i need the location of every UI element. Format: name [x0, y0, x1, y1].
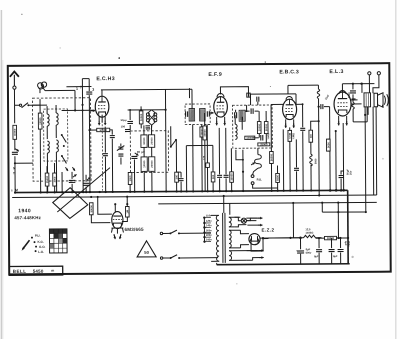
EF9 grid wire	[210, 112, 213, 114]
coil table	[49, 229, 67, 253]
IF1 wires	[192, 125, 194, 192]
legend switch	[23, 240, 30, 249]
resistor 3000	[53, 173, 57, 186]
svg-text:10000: 10000	[142, 160, 146, 168]
svg-text:145v: 145v	[206, 223, 212, 227]
trimmer wires	[61, 172, 63, 192]
svg-text:10000: 10000	[257, 123, 261, 131]
svg-text:1400Ω: 1400Ω	[305, 231, 313, 235]
svg-text:457-448KHz: 457-448KHz	[14, 215, 41, 220]
ECH3 pins	[98, 117, 100, 123]
wire s1	[204, 232, 211, 234]
svg-text:125v: 125v	[206, 219, 212, 223]
svg-text:200: 200	[175, 174, 179, 179]
bus 2	[12, 195, 376, 198]
svg-text:5000: 5000	[314, 158, 317, 164]
wire right v3	[375, 107, 378, 195]
switch ant	[15, 104, 20, 106]
coil box dashed	[33, 98, 92, 181]
ECH3 grid left wire	[62, 109, 95, 111]
wire right v1	[364, 107, 367, 212]
osc bottom wires	[133, 159, 135, 191]
tube EL3	[334, 92, 351, 116]
wire 293 up	[292, 203, 294, 238]
ant coil 2	[47, 141, 49, 153]
svg-text:6M3/665: 6M3/665	[124, 227, 144, 232]
6M3 wires	[114, 204, 116, 212]
bus 3	[158, 202, 376, 204]
padder 3	[141, 157, 147, 172]
svg-text:BELL: BELL	[13, 269, 27, 274]
speck	[118, 57, 120, 59]
speaker	[374, 93, 378, 107]
IF2 dashed box	[233, 105, 273, 148]
svg-text:1940: 1940	[18, 208, 31, 214]
svg-text:220v: 220v	[206, 233, 212, 237]
svg-text:50000: 50000	[269, 153, 273, 161]
svg-text:300: 300	[211, 174, 215, 179]
svg-text:500v: 500v	[306, 251, 312, 255]
pt primary	[216, 215, 219, 261]
svg-text:3000: 3000	[53, 176, 57, 182]
wire 88 to 190	[188, 88, 190, 98]
svg-text:20000: 20000	[38, 117, 42, 125]
heater arrows 1	[246, 220, 256, 222]
cap small	[145, 125, 149, 127]
coilbox bottom wires	[47, 177, 49, 192]
scan edge left	[0, 10, 2, 339]
heater arrows 2	[259, 250, 263, 252]
osc dashed box	[130, 131, 168, 173]
svg-text:50000: 50000	[264, 123, 268, 131]
wire top right link	[321, 203, 323, 212]
IF2 coil A	[239, 110, 245, 121]
pt sec HT	[229, 230, 231, 248]
switch S2	[160, 257, 162, 259]
padder 1	[141, 135, 147, 148]
svg-text:20000: 20000	[150, 160, 154, 168]
resistor osc out	[128, 172, 132, 184]
cap 50uF el3	[342, 123, 344, 190]
wire top 86 mid	[288, 84, 318, 86]
dash vert ech	[101, 121, 103, 191]
svg-text:1000: 1000	[128, 175, 132, 181]
svg-text:5000: 5000	[326, 142, 330, 148]
svg-text:1M: 1M	[309, 134, 313, 138]
resistor 20000	[38, 113, 42, 129]
wire 88 row	[101, 88, 192, 91]
EL3 top wire	[341, 84, 343, 93]
svg-text:50: 50	[144, 250, 149, 255]
mains terminal 2	[377, 72, 380, 75]
svg-text:245v: 245v	[206, 237, 212, 241]
svg-text:E.C.H3: E.C.H3	[96, 76, 115, 82]
resistor ebc 2	[276, 173, 280, 182]
cap ef9 2	[224, 174, 229, 176]
pancake coil	[38, 82, 47, 89]
svg-text:7: 7	[80, 85, 82, 89]
osc top wires	[128, 109, 166, 111]
switch arrows	[65, 167, 68, 171]
svg-text:1: 1	[76, 87, 78, 91]
resistor 5000 el3	[329, 107, 331, 139]
IF2 top cap	[250, 108, 252, 113]
svg-text:10000: 10000	[13, 128, 17, 136]
IF2 coil spring	[235, 124, 237, 139]
cap 3	[86, 91, 92, 93]
IF1 coil B	[200, 108, 206, 121]
cap ant gnd	[14, 139, 16, 150]
pt sec heater-rect	[229, 217, 231, 227]
ot wires	[361, 84, 363, 93]
osc coil 1	[56, 113, 58, 125]
resistor if1 b	[175, 172, 179, 182]
resistor 10000 ant	[13, 125, 17, 139]
osc right wire	[169, 104, 171, 109]
cap ech cath	[110, 130, 113, 135]
EBC3 pins	[285, 119, 287, 125]
tube ECH3	[95, 96, 109, 117]
svg-text:P.U.: P.U.	[35, 234, 41, 238]
band switch 2	[62, 156, 67, 164]
IF2 cap b	[260, 135, 262, 140]
wave switch wire	[170, 126, 172, 146]
cap if1 b	[180, 172, 182, 177]
padder 2	[148, 135, 154, 148]
osc left caps	[118, 146, 123, 148]
ECH3 cathode wire	[101, 115, 103, 123]
svg-text:25000: 25000	[260, 142, 268, 146]
svg-text:E.Z.2: E.Z.2	[261, 227, 274, 232]
wire 338 up	[337, 203, 339, 238]
svg-text:0.5M: 0.5M	[288, 133, 292, 139]
svg-text:E.L.3: E.L.3	[329, 69, 343, 75]
resistor 50000 ech	[97, 128, 110, 131]
svg-text:5000: 5000	[276, 175, 280, 181]
svg-text:10000: 10000	[139, 113, 143, 121]
mains terminal 1	[368, 72, 371, 75]
det wires	[236, 150, 243, 160]
coil top wires	[33, 104, 40, 106]
wire ant node	[14, 156, 16, 192]
IF1 coil A	[189, 109, 195, 122]
IF2 res 2	[264, 122, 268, 134]
pt core	[222, 213, 224, 263]
EBC3 top wire	[287, 85, 289, 93]
wire 336 v	[335, 131, 337, 190]
IF1 dashed box	[185, 104, 210, 125]
svg-text:G.O.: G.O.	[39, 245, 46, 249]
resistor 30000 filt	[324, 236, 336, 239]
svg-text:P.U.: P.U.	[257, 178, 263, 182]
cap 100pF ebc	[300, 127, 305, 129]
bus to frame	[216, 263, 218, 265]
cap elec 2	[318, 238, 320, 248]
IF1 cap left	[185, 111, 187, 116]
ech pin wires	[90, 129, 97, 131]
ez2 wires	[240, 230, 249, 234]
resistor 25000	[45, 173, 49, 186]
tuning gang box	[53, 188, 88, 219]
top wire y85 left	[66, 86, 91, 88]
padder 4	[149, 157, 155, 172]
volume pot	[257, 148, 259, 154]
svg-text:T: T	[13, 171, 15, 175]
svg-text:5450: 5450	[33, 269, 44, 274]
EL3 pins	[338, 116, 340, 123]
svg-text:100: 100	[121, 125, 126, 129]
pilot lamp	[241, 218, 246, 223]
svg-text:30000: 30000	[203, 129, 207, 137]
tap lines	[203, 218, 205, 242]
tube 6M3	[112, 212, 123, 229]
wire ebc to top	[269, 85, 271, 87]
svg-text:8μF: 8μF	[314, 255, 319, 258]
osc coil butterfly	[146, 113, 149, 116]
resistor 50000 avc	[90, 196, 92, 198]
switch S1	[160, 232, 162, 234]
resistor ef9 1	[203, 126, 207, 140]
gang shaft	[57, 168, 110, 212]
wire antenna down	[13, 89, 15, 123]
cap elec 1	[299, 238, 301, 249]
IF1 cap right	[206, 111, 208, 116]
chassis bus	[14, 190, 347, 192]
tube EBC3	[283, 99, 297, 119]
cap elec 4	[339, 238, 341, 248]
coil box inner dashed	[44, 109, 68, 161]
grid cap node	[45, 89, 75, 91]
svg-text:L.G.: L.G.	[38, 250, 44, 254]
6M3 base	[111, 227, 123, 229]
antenna	[13, 75, 15, 86]
EF9 pins	[216, 117, 218, 123]
resistor 1M ebc out	[311, 121, 319, 130]
svg-text:200v: 200v	[206, 228, 212, 232]
band switch 1	[62, 135, 67, 143]
resistor 30000 if1	[200, 127, 204, 137]
IF2 wires	[256, 97, 258, 102]
svg-text:10000: 10000	[230, 173, 234, 181]
coupling squiggle	[317, 89, 320, 98]
triangle 50	[137, 241, 156, 257]
svg-text:M: M	[15, 188, 18, 192]
svg-text:+: +	[296, 249, 298, 253]
svg-text:E.B.C.3: E.B.C.3	[279, 69, 299, 75]
wire right v4	[382, 105, 384, 107]
IF2 res h2	[258, 143, 270, 146]
svg-text:450v: 450v	[347, 241, 351, 247]
var cap 1	[71, 184, 73, 192]
svg-text:25000: 25000	[45, 175, 49, 183]
ant coil 1	[47, 114, 49, 126]
rect out wire	[262, 238, 268, 240]
wire el3 plate	[352, 98, 356, 100]
svg-text:K.G.: K.G.	[37, 240, 43, 244]
bottom bus	[217, 263, 350, 266]
svg-text:3: 3	[92, 88, 94, 92]
resistor ebc 3	[288, 130, 292, 141]
pt sec heater	[229, 251, 231, 261]
resistor 175	[206, 124, 208, 162]
svg-text:½MΩ: ½MΩ	[266, 133, 270, 139]
resistor ef9 2	[230, 172, 234, 183]
svg-text:50000: 50000	[89, 205, 93, 213]
svg-text:50μμ: 50μμ	[121, 119, 127, 122]
wire 106 down	[104, 127, 106, 153]
resistor 1M eye	[125, 206, 129, 217]
resistor ebc 1	[270, 120, 272, 152]
wire r20000	[39, 105, 41, 113]
EBC3 diode wires	[271, 103, 283, 105]
svg-text:10000: 10000	[142, 137, 146, 145]
svg-text:1M: 1M	[125, 210, 129, 214]
IF2 res h	[245, 136, 255, 139]
wire el3 to ot	[351, 99, 357, 101]
svg-text:E.F.9: E.F.9	[208, 72, 222, 78]
svg-text:25v: 25v	[350, 170, 353, 175]
avc eye wire	[97, 196, 99, 198]
svg-text:m: m	[51, 269, 54, 273]
wire ot down	[372, 107, 375, 195]
tube EF9	[214, 97, 228, 117]
EF9 top box wire	[220, 87, 248, 97]
svg-text:½MΩ: ½MΩ	[291, 133, 295, 139]
B+ vertical	[347, 190, 350, 263]
svg-text:50000: 50000	[100, 128, 108, 132]
var cap 2	[85, 187, 87, 192]
svg-text:20000: 20000	[150, 137, 154, 145]
svg-text:30000: 30000	[327, 236, 335, 240]
cap ebc	[294, 167, 299, 169]
antenna terminal	[13, 86, 16, 89]
resistor 10000 osc	[139, 111, 143, 124]
pu terminals	[251, 175, 254, 178]
pu wires	[253, 184, 278, 188]
osc coil 2	[56, 140, 58, 152]
IF2 cap in	[234, 112, 236, 118]
avc wire	[186, 144, 212, 146]
resistor ef9 cath	[211, 172, 215, 182]
voltage taps	[203, 216, 205, 218]
choke field coil	[303, 235, 315, 238]
IF2 res 1	[257, 122, 261, 134]
cap ef9 1	[217, 174, 222, 176]
cap elec 3	[329, 249, 335, 251]
ECH3 top wire	[101, 90, 103, 96]
title box	[9, 266, 63, 275]
output transformer	[364, 93, 371, 107]
scan edge right	[395, 0, 397, 339]
wire ebc plate top	[250, 93, 295, 95]
tube EZ2	[249, 233, 260, 244]
svg-text:8μF: 8μF	[333, 255, 338, 258]
